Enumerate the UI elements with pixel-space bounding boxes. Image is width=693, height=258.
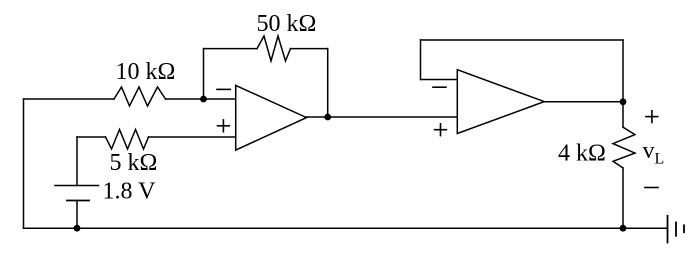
wire: output node down to 4k: [622, 102, 624, 127]
wire: op1 output to op2 non-inverting input: [307, 116, 457, 118]
label op2 plus input: [435, 124, 447, 136]
svg-text:5 kΩ: 5 kΩ: [110, 150, 158, 176]
battery V1 short plate: [67, 200, 89, 202]
node: battery to bottom rail: [74, 225, 81, 232]
label op1 minus input: [217, 88, 230, 90]
label op2 minus input: [433, 86, 446, 88]
wire: 10k to op-amp inverting input: [166, 98, 236, 100]
svg-text:50 kΩ: 50 kΩ: [257, 11, 317, 37]
wire: 50k loop right vertical down to op1 output: [327, 49, 329, 117]
wire: 50k loop top right segment: [291, 48, 328, 50]
battery V1 long plate: [55, 185, 99, 187]
wire: op2 output: [544, 101, 623, 103]
label plus polarity of load: [646, 111, 658, 123]
label minus polarity of load: [645, 187, 658, 189]
ground symbol short bar: [683, 225, 685, 232]
svg-text:1.8 V: 1.8 V: [103, 179, 157, 205]
wire: 50k loop top left segment: [204, 48, 258, 50]
wire: top input from left rail to 10k: [24, 98, 115, 100]
wire: battery bottom lead: [76, 201, 78, 229]
wire: 5k input to op1 non-inverting input: [77, 136, 106, 138]
svg-text:vL: vL: [643, 138, 665, 168]
resistor R1 10 kOhm: [114, 87, 166, 106]
wire: 50k loop left vertical: [203, 49, 205, 99]
wire: bottom rail: [24, 227, 668, 229]
wire: battery top lead: [76, 137, 78, 186]
node: op1 output / 50k feedback junction: [324, 114, 331, 121]
wire: op2 feedback to inverting input: [421, 79, 458, 81]
svg-text:4 kΩ: 4 kΩ: [558, 140, 606, 166]
ground symbol medium bar: [675, 223, 677, 236]
svg-text:10 kΩ: 10 kΩ: [116, 59, 176, 85]
op-amp U2 triangle: [457, 70, 544, 134]
wire: op2 feedback left vertical: [420, 40, 422, 80]
node A: junction 10k / 50k feedback / op1 inverting input: [200, 96, 207, 103]
wire: op2 feedback top horizontal: [421, 39, 624, 41]
ground symbol (right-pointing) tall bar: [667, 216, 669, 243]
wire: 5k to op1 plus input: [149, 136, 236, 138]
node: 4k to bottom rail: [620, 225, 627, 232]
wire: 4k bottom to rail: [622, 168, 624, 228]
node: op2 output / feedback / load junction: [620, 98, 627, 105]
label op1 plus input: [218, 120, 230, 132]
wire: left vertical rail: [23, 99, 25, 228]
resistor R4 4 kOhm (vertical): [613, 127, 635, 168]
resistor R3 5 kOhm: [106, 130, 149, 150]
wire: op2 feedback right vertical: [622, 40, 624, 102]
op-amp U1 triangle: [236, 85, 307, 150]
resistor R2 50 kOhm: [257, 36, 291, 61]
